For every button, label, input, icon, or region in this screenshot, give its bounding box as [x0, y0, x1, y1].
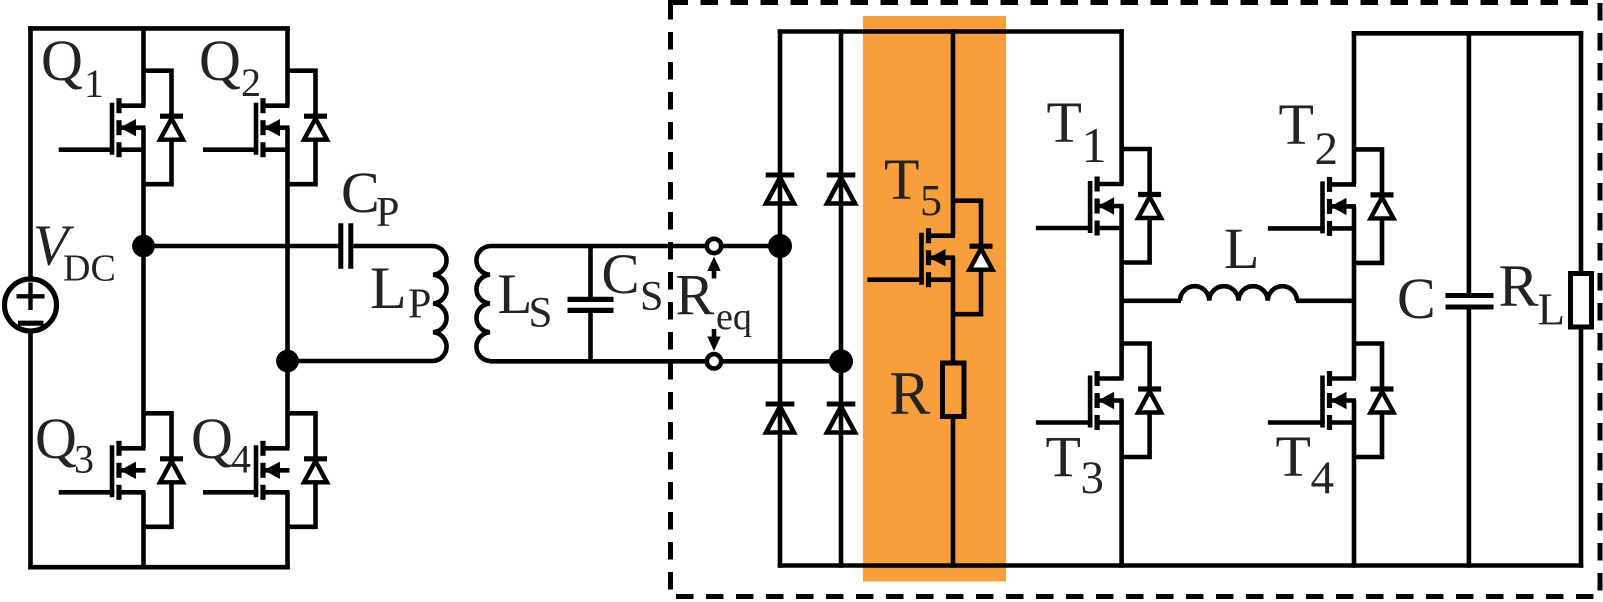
- inductor L (output filter): [1180, 286, 1297, 301]
- transistor T2: [1268, 177, 1356, 236]
- wire: output box top rail: [1352, 31, 1584, 36]
- wire: rectifier right leg: [839, 29, 844, 568]
- label CS: [602, 243, 664, 320]
- svg-text:T: T: [884, 147, 919, 212]
- wire: T2/T4 leg middle (T2 source to T4 drain): [1352, 206, 1357, 378]
- wire: left DC bus vertical (bottom half): [28, 332, 33, 570]
- svg-text:eq: eq: [716, 296, 752, 338]
- label T4: [1276, 424, 1335, 504]
- wire: Q1 drain to top rail: [141, 26, 146, 106]
- label RL: [1499, 253, 1566, 335]
- wire: resistor R to bottom rail: [951, 418, 956, 568]
- svg-text:R: R: [676, 263, 715, 328]
- wire: rectifier left leg: [778, 29, 783, 568]
- DC source VDC (circle with plus/minus): [5, 279, 57, 331]
- svg-text:L: L: [1538, 285, 1566, 335]
- svg-text:L: L: [1224, 216, 1259, 281]
- svg-text:Q: Q: [41, 28, 83, 93]
- body diode of Q2: [288, 71, 328, 185]
- svg-text:P: P: [408, 282, 431, 328]
- wire: left DC bus vertical (top half): [28, 26, 33, 279]
- svg-text:T: T: [1276, 424, 1311, 489]
- inductor LP (primary coil): [433, 246, 447, 361]
- label T3: [1046, 425, 1105, 505]
- svg-text:T: T: [1047, 90, 1082, 155]
- wire: T3 source to bottom rail: [1119, 401, 1124, 568]
- svg-text:Q: Q: [35, 406, 77, 471]
- body diode of T2: [1354, 149, 1394, 263]
- orange highlight band over T5/R branch: [863, 16, 1006, 582]
- svg-text:3: 3: [1081, 452, 1105, 504]
- diode D1 (rectifier upper-left): [766, 175, 795, 204]
- svg-text:5: 5: [920, 176, 942, 225]
- body diode of T4: [1354, 344, 1394, 458]
- node B: inverter right-leg midpoint junction dot: [276, 350, 299, 373]
- label LS: [498, 263, 553, 337]
- body diode of T3: [1122, 344, 1162, 458]
- transistor T1: [1036, 177, 1124, 236]
- svg-text:S: S: [529, 290, 553, 337]
- svg-text:2: 2: [1315, 123, 1339, 175]
- arrow: Req upper port (pointing up): [707, 257, 720, 279]
- wire: load branch upper lead: [1579, 33, 1584, 273]
- wire: secondary bottom (LS to rectifier node): [490, 359, 841, 364]
- svg-text:2: 2: [241, 60, 261, 105]
- wire: Q3 source to bottom rail: [141, 492, 146, 569]
- wire: Q2 drain to top rail: [285, 26, 290, 106]
- node A: inverter left-leg midpoint junction dot: [132, 235, 155, 258]
- label T1: [1047, 90, 1107, 173]
- wire: right bridge leg Q2 source to Q4 drain: [285, 128, 290, 449]
- label Q3: [35, 406, 94, 482]
- svg-text:R: R: [890, 361, 931, 428]
- transistor Q2: [203, 98, 290, 157]
- body diode of T5: [953, 201, 993, 315]
- inductor LS (secondary coil): [476, 246, 490, 361]
- svg-text:Q: Q: [191, 406, 233, 471]
- wire: T1/T3 leg middle (T1 source to T3 drain): [1119, 206, 1124, 379]
- wire: CP to primary coil LP: [353, 244, 434, 249]
- svg-text:1: 1: [1082, 117, 1107, 173]
- svg-text:P: P: [376, 190, 399, 236]
- svg-text:C: C: [602, 243, 640, 306]
- svg-text:L: L: [498, 263, 533, 326]
- body diode of Q1: [144, 71, 184, 185]
- terminal: Req upper port circle: [707, 239, 721, 253]
- svg-text:L: L: [370, 255, 407, 321]
- wire: midpoint to capacitor CP: [144, 244, 339, 249]
- wire: CS branch upper lead: [588, 246, 593, 297]
- label T2: [1279, 92, 1339, 175]
- wire: inverter bottom rail: [28, 565, 290, 570]
- svg-text:4: 4: [231, 437, 251, 482]
- wire: inductor L to T2/T4 midpoint: [1296, 298, 1354, 303]
- wire: left bridge leg Q1 source to Q3 drain: [141, 128, 146, 449]
- svg-text:T: T: [1279, 92, 1314, 157]
- wire: CS branch lower lead: [588, 313, 593, 362]
- diode D2 (rectifier upper-right): [827, 175, 856, 204]
- arrow: Req lower port (pointing down): [707, 329, 720, 351]
- label Q4: [191, 406, 251, 482]
- label T5: [884, 147, 942, 225]
- node: rectifier left-leg output junction dot: [768, 234, 792, 258]
- svg-text:4: 4: [1311, 452, 1335, 504]
- body diode of T1: [1122, 149, 1162, 263]
- wire: common bottom rail (rectifier to output): [778, 563, 1584, 568]
- svg-text:1: 1: [84, 61, 104, 106]
- wire: rectifier top rail to T1 leg: [778, 29, 1124, 34]
- svg-text:DC: DC: [63, 248, 116, 290]
- svg-text:Q: Q: [199, 28, 241, 93]
- resistor R: [943, 363, 965, 417]
- dashed boundary box (secondary-side equivalent region): [671, 3, 1601, 597]
- label Req: [676, 263, 752, 339]
- wire: output capacitor C upper lead: [1467, 33, 1472, 293]
- transistor Q4: [203, 441, 290, 500]
- resistor RL (load): [1571, 274, 1592, 328]
- svg-text:T: T: [1046, 425, 1081, 490]
- node: rectifier right-leg output junction dot: [829, 349, 853, 373]
- diode D4 (rectifier lower-right): [827, 404, 856, 433]
- wire: inverter top rail: [28, 26, 290, 31]
- svg-text:S: S: [640, 274, 663, 320]
- label Q1: [41, 28, 104, 106]
- label Q2: [199, 28, 261, 105]
- wire: T2/T4 leg (top rail to T2 drain): [1352, 31, 1357, 184]
- label VDC: [33, 213, 116, 290]
- wire: T1/T3 leg (top rail to T1 drain): [1119, 29, 1124, 184]
- wire: secondary top (LS to rectifier node): [490, 244, 780, 249]
- svg-text:C: C: [341, 160, 380, 225]
- wire: load branch lower lead: [1579, 328, 1584, 568]
- wire: T5 source to resistor R: [951, 258, 956, 362]
- body diode of Q3: [144, 413, 184, 527]
- capacitor CS: [568, 299, 614, 310]
- svg-text:C: C: [1397, 266, 1436, 331]
- diode D3 (rectifier lower-left): [766, 404, 795, 433]
- wire: T4 source to bottom rail: [1352, 401, 1357, 568]
- transistor T4: [1268, 371, 1356, 430]
- label LP: [370, 255, 431, 328]
- wire: LP bottom back to right-leg midpoint: [288, 359, 435, 364]
- transistor T5: [867, 228, 955, 287]
- wire: Q4 source to bottom rail: [285, 492, 290, 569]
- wire: T5 drain to top rail: [951, 29, 956, 236]
- capacitor C (output filter): [1446, 296, 1494, 308]
- wire: output capacitor C lower lead: [1467, 309, 1472, 568]
- capacitor CP: [341, 223, 351, 268]
- body diode of Q4: [288, 413, 328, 527]
- transistor Q1: [59, 98, 146, 157]
- svg-text:R: R: [1499, 253, 1539, 319]
- svg-text:3: 3: [74, 437, 94, 482]
- transistor T3: [1036, 371, 1124, 430]
- label CP: [341, 160, 399, 236]
- wire: T1/T3 midpoint to filter inductor L: [1122, 298, 1181, 303]
- transistor Q3: [59, 441, 146, 500]
- terminal: Req lower port circle: [707, 354, 721, 368]
